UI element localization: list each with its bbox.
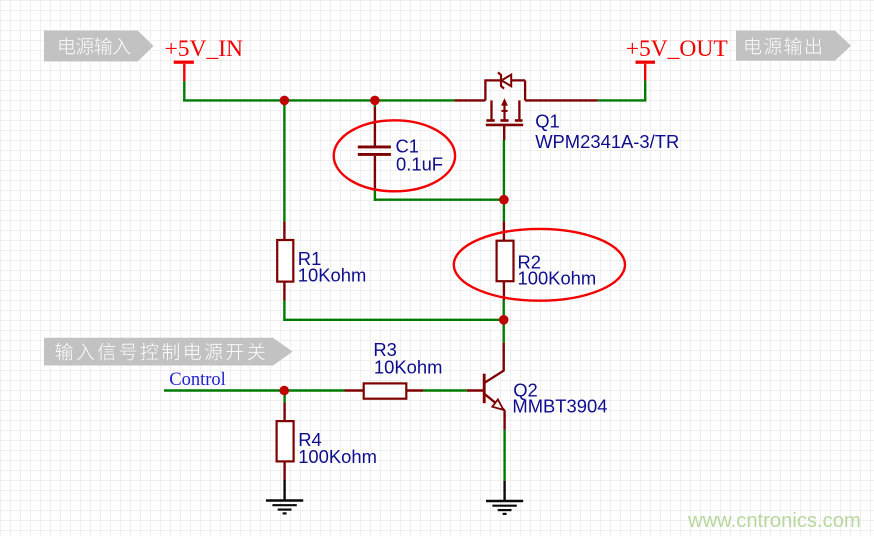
wire R4 top xyxy=(283,391,285,403)
resistor R2 xyxy=(497,241,514,282)
wire R1 top xyxy=(283,100,285,221)
pin Q2 base xyxy=(467,389,483,391)
pin Q2 collector xyxy=(485,343,504,383)
annotation ellipse around C1 xyxy=(334,120,455,191)
label R2 xyxy=(518,251,542,272)
wire Control left xyxy=(164,389,345,391)
node junction J2 xyxy=(370,96,380,106)
annotation ellipse around R2 xyxy=(454,229,625,301)
power port +5V_IN xyxy=(165,36,244,81)
banner: power output label 电源输出 xyxy=(736,31,851,61)
pin R2 bottom xyxy=(503,281,505,300)
wire R1 bottom to mid rail xyxy=(283,301,503,321)
value WPM2341A-3/TR xyxy=(535,131,679,152)
ground under R4 xyxy=(266,480,303,513)
wire C1 bottom to gate node xyxy=(374,190,504,201)
svg-text:10Kohm: 10Kohm xyxy=(298,265,367,286)
value 100Kohm xyxy=(518,268,597,289)
wire +5V_IN down xyxy=(183,81,185,102)
svg-text:100Kohm: 100Kohm xyxy=(518,268,597,289)
capacitor C1 xyxy=(358,146,391,156)
wire top rail left xyxy=(183,99,454,101)
pin R1 top xyxy=(283,222,285,241)
label R3 xyxy=(373,339,397,360)
label Q1 xyxy=(535,110,560,131)
wire gate node to R2 xyxy=(503,140,505,222)
pin R3 left xyxy=(345,389,365,391)
wire C1 top xyxy=(374,100,376,107)
node junction J1 xyxy=(280,96,290,106)
transistor Q2 NPN symbol xyxy=(484,374,504,411)
svg-text:100Kohm: 100Kohm xyxy=(298,446,377,467)
svg-text:Control: Control xyxy=(169,370,226,390)
label R4 xyxy=(298,429,322,450)
svg-text:0.1uF: 0.1uF xyxy=(396,154,443,175)
banner: control description label 输入信号控制电源开关 xyxy=(44,338,293,366)
pin Q2 emitter xyxy=(503,410,505,430)
resistor R3 xyxy=(364,383,407,398)
pin C1 bottom xyxy=(374,156,376,190)
wire R3 to Q2 base xyxy=(423,389,466,391)
svg-text:Q1: Q1 xyxy=(535,110,560,131)
pin C1 top xyxy=(374,107,376,146)
label C1 xyxy=(396,135,420,156)
resistor R4 xyxy=(277,421,294,461)
svg-text:10Kohm: 10Kohm xyxy=(374,357,443,378)
svg-text:+5V_IN: +5V_IN xyxy=(165,36,244,62)
svg-text:MMBT3904: MMBT3904 xyxy=(512,395,607,416)
node junction J4 xyxy=(499,315,509,325)
svg-text:WPM2341A-3/TR: WPM2341A-3/TR xyxy=(535,131,679,152)
power port +5V_OUT xyxy=(626,36,728,80)
pin R3 right xyxy=(406,389,423,391)
resistor R1 xyxy=(277,240,293,282)
banner: power input label 电源输入 xyxy=(44,31,154,62)
wire top rail right xyxy=(598,99,647,101)
label R1 xyxy=(298,248,322,269)
watermark www.cntronics.com xyxy=(687,510,861,532)
value MMBT3904 xyxy=(512,395,607,416)
label Q2 xyxy=(513,379,538,400)
pin Q1 gate xyxy=(503,125,505,140)
value 0.1uF xyxy=(396,154,443,175)
pin Q1 drain xyxy=(525,99,598,101)
pin R2 top xyxy=(503,222,505,241)
pin R4 top xyxy=(283,403,285,422)
node junction J3 xyxy=(499,195,509,205)
pin R1 bottom xyxy=(283,282,285,301)
pin R4 bottom xyxy=(283,461,285,480)
svg-text:+5V_OUT: +5V_OUT xyxy=(626,36,728,62)
value 10Kohm R3 xyxy=(374,357,443,378)
transistor Q1 PMOS symbol xyxy=(484,72,525,125)
pin Q1 source xyxy=(454,99,485,101)
svg-text:www.cntronics.com: www.cntronics.com xyxy=(687,510,861,532)
wire mid rail to Q2 collector xyxy=(503,320,505,343)
value 10Kohm xyxy=(298,265,367,286)
node junction J5 xyxy=(279,386,289,396)
wire R2 bottom xyxy=(503,300,505,320)
wire +5V_OUT down xyxy=(644,80,646,101)
net label Control xyxy=(169,370,226,390)
value 100Kohm R4 xyxy=(298,446,377,467)
ground under Q2 xyxy=(486,481,523,514)
wire Q2 emitter down xyxy=(503,430,505,481)
